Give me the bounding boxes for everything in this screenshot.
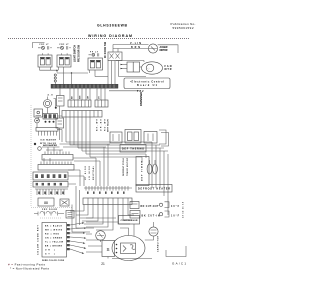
svg-text:BK: BK: [72, 96, 74, 99]
svg-text:40°F: 40°F: [171, 205, 180, 208]
wire: compressor top feed: [120, 224, 134, 237]
wire: left feeder bundle down: [72, 186, 80, 232]
label: water valve amps: [48, 94, 54, 97]
header model number label: [97, 24, 128, 28]
limit switch with cross: [60, 199, 69, 206]
connector chain to light bus: [54, 74, 56, 85]
ice maker heater bar: [43, 114, 58, 123]
wire: switch block feeders: [113, 45, 118, 53]
connector P6 comb: [38, 162, 74, 171]
label: door switch column right: [104, 41, 107, 58]
solenoid valve SV1: [34, 109, 43, 117]
mullion heater box: [66, 211, 74, 219]
wire: ground stub: [101, 240, 109, 258]
svg-text:WIRE COLOR CODE: WIRE COLOR CODE: [42, 260, 65, 262]
connector block row: socket B: [125, 130, 141, 144]
connector P5 comb: [42, 152, 73, 161]
wire: fan lead: [140, 66, 142, 68]
svg-text:OR =: OR =: [45, 250, 56, 252]
svg-text:BK = BLACK: BK = BLACK: [45, 225, 63, 228]
connector block row: socket C: [144, 132, 157, 144]
light bus bar (hatched): [51, 84, 118, 88]
connector block row: socket A: [110, 132, 122, 143]
svg-text:DEF THERMO: DEF THERMO: [122, 148, 144, 151]
wire: motor top to right drop: [158, 45, 178, 53]
svg-text:BK-WH: BK-WH: [97, 118, 99, 131]
wire: drops from light bus to connector J1: [70, 88, 105, 100]
svg-text:MTR: MTR: [165, 68, 172, 71]
svg-text:AIR DAMPER: AIR DAMPER: [43, 144, 57, 147]
wire: bottom-right corner bracket: [166, 246, 186, 257]
label: wire color columns right of TB1: [97, 118, 107, 131]
freezer lamp assembly 1: [38, 53, 52, 67]
svg-text:Board U1: Board U1: [137, 84, 158, 87]
compressor motor: [112, 236, 145, 261]
wire: mid vertical bundle: [80, 144, 108, 186]
svg-text:S: S: [106, 247, 109, 252]
wire: mid mesh horizontals: [42, 144, 110, 184]
svg-text:RD-WH: RD-WH: [105, 118, 107, 131]
svg-text:LIGHT SWITCH: LIGHT SWITCH: [74, 45, 77, 62]
ice maker connector comb: [36, 128, 58, 136]
switch block with arc contacts: [108, 52, 122, 61]
label: light switch column (rotated): [74, 44, 81, 62]
label: freezer door row: [42, 209, 58, 211]
svg-text:4.8: 4.8: [48, 94, 54, 97]
svg-text:DISPENSER: DISPENSER: [140, 92, 143, 106]
wire: lamp 1 legs to common: [40, 67, 51, 70]
electronic control board U1: [124, 78, 170, 89]
defrost heater label box: [136, 185, 172, 193]
svg-text:GY: GY: [99, 95, 101, 99]
ice dispenser solenoid box: [121, 62, 140, 72]
footer page number 21: [101, 262, 105, 266]
relay module K1: [57, 88, 65, 106]
label: right margin pin numbers: [183, 201, 185, 218]
wire: compressor feed runs: [70, 205, 152, 259]
svg-text:RD = RED: RD = RED: [45, 234, 60, 236]
label: timer wire colors (rotated): [123, 157, 129, 176]
label: dispenser harness (rotated): [140, 92, 143, 106]
damper motor M4: [38, 144, 58, 150]
svg-text:DEF TIMER: DEF TIMER: [142, 161, 144, 181]
wire: nested bracket right of socket row: [159, 130, 169, 146]
wire: key arrows to diagram: [70, 222, 86, 254]
freezer lamp assembly 2: [57, 53, 71, 67]
connector J2 header comb: [84, 186, 132, 194]
terminal strip TB1: [62, 111, 102, 118]
start relay K3: [102, 241, 115, 257]
color key terminal pads: [67, 224, 70, 250]
dotted separator rule: [8, 38, 190, 40]
svg-text:WTR VALVE: WTR VALVE: [107, 118, 110, 132]
wire: capacitor leads: [145, 222, 154, 240]
wire: top-left corner bracket: [33, 43, 45, 49]
svg-text:HI SIDE: HI SIDE: [85, 165, 87, 180]
door switch chain row: [34, 212, 64, 219]
thermostat bulb 1: [147, 160, 152, 174]
MAIN SCHEMATIC: [31, 41, 186, 262]
overload protector OL1: [96, 231, 106, 241]
center mesh labels: [85, 165, 95, 180]
fresh food lamp assembly: [88, 51, 103, 70]
thermostat bulb 2: [153, 160, 158, 174]
svg-text:FRZ DOOR SW: FRZ DOOR SW: [78, 44, 81, 62]
wire: lamp common run: [40, 70, 58, 73]
svg-text:GY =: GY =: [45, 254, 56, 256]
svg-text:RD CUT-OUT: RD CUT-OUT: [141, 206, 160, 208]
svg-text:COLOR CODE KEY: COLOR CODE KEY: [38, 224, 40, 255]
svg-text:10°F: 10°F: [171, 216, 180, 218]
svg-text:FRZ LT: FRZ LT: [60, 44, 70, 46]
thermal cutout row 2: [130, 211, 180, 219]
wire: cabinet boundary (dashed): [31, 105, 72, 208]
wire: top run V-LIN: [113, 42, 149, 45]
lamp symbol row above freezer lamp 1: [38, 44, 52, 50]
wire: center vertical bundle from switches: [108, 61, 119, 85]
svg-text:FRZ LT: FRZ LT: [40, 44, 50, 46]
svg-text:* = Non-Illustrated Parts: * = Non-Illustrated Parts: [10, 266, 50, 270]
label: key caption below: [42, 260, 65, 262]
svg-text:OR: OR: [88, 95, 90, 99]
svg-text:FF LT: FF LT: [90, 51, 99, 53]
ice maker motor M3: [35, 118, 40, 123]
svg-text:ICE MAKER: ICE MAKER: [40, 139, 57, 142]
svg-text:GN = GREEN: GN = GREEN: [45, 238, 63, 240]
svg-text:LO SIDE: LO SIDE: [89, 165, 91, 180]
compressor terminal box: [119, 216, 140, 225]
auger motor M1: [148, 44, 167, 53]
svg-text:WIRING DIAGRAM: WIRING DIAGRAM: [88, 34, 132, 38]
footer doc code GA/C1: [172, 262, 186, 266]
svg-text:GLHS36EEWB: GLHS36EEWB: [97, 24, 128, 28]
label: capacitor (rotated): [157, 235, 160, 252]
legend: fast-moving parts: [8, 263, 46, 267]
thermal cutout row 1: [130, 202, 180, 209]
wire: left cluster links: [37, 108, 62, 143]
svg-text:MOTOR: MOTOR: [160, 49, 168, 52]
connector P7 with filled pins: [33, 172, 68, 180]
svg-text:WH = WHITE: WH = WHITE: [45, 230, 63, 232]
wire: right bus verticals: [142, 142, 168, 215]
svg-text:FRZ DOOR: FRZ DOOR: [42, 209, 58, 211]
defrost timer T1: [136, 157, 149, 186]
door heater resistor box: [38, 198, 54, 206]
connector J1B: [95, 100, 108, 107]
wire: run to fan below: [95, 61, 146, 77]
connector J3 strip: [83, 198, 132, 205]
svg-text:YL = YELLOW: YL = YELLOW: [45, 242, 63, 244]
header publication number label: [171, 22, 196, 30]
wire: common to fresh-food lamp: [57, 72, 88, 84]
svg-text:NEUTRAL: NEUTRAL: [92, 165, 95, 180]
svg-text:88: 88: [44, 201, 48, 205]
svg-text:BRN: BRN: [131, 46, 140, 49]
color code key box: [42, 223, 67, 258]
run capacitor C1: [149, 227, 158, 236]
wire: control board output with arrow: [109, 90, 144, 93]
defrost thermostat label box: [120, 145, 146, 153]
connector P8 with filled pins: [33, 182, 68, 188]
svg-text:V-LIN: V-LIN: [130, 42, 141, 45]
svg-text:OR-BK: OR-BK: [101, 118, 103, 131]
svg-text:DEFROST CYCLE: DEFROST CYCLE: [123, 157, 125, 176]
label: ice maker rows: [34, 139, 57, 146]
wire: fan-out from TB1 bundle to right bus: [66, 142, 168, 157]
wire: comb risers: [44, 147, 60, 162]
svg-text:GA/C1: GA/C1: [172, 262, 186, 266]
svg-text:BK CUT-IN: BK CUT-IN: [142, 216, 160, 218]
svg-text:5995061592: 5995061592: [173, 26, 194, 30]
svg-text:WH: WH: [80, 95, 82, 99]
svg-text:TIMER MOTOR: TIMER MOTOR: [127, 157, 129, 176]
connector P9 comb with pin pairs: [35, 189, 68, 195]
svg-text:CAPACITOR: CAPACITOR: [157, 235, 160, 252]
wire: fresh food lamp drop: [90, 70, 96, 77]
svg-text:◌: ◌: [148, 66, 150, 70]
water valve motor M2: [44, 97, 57, 109]
label: water inlet (rotated): [107, 118, 110, 132]
evaporator fan motor: [142, 62, 172, 74]
svg-text:COMPRESSOR: COMPRESSOR: [121, 220, 138, 222]
svg-text:FF DOOR SW: FF DOOR SW: [104, 41, 107, 58]
header WIRING DIAGRAM title: [88, 34, 132, 38]
label: wire colors above J1: [72, 95, 101, 99]
legend: non-illustrated parts: [10, 266, 50, 270]
lamp symbol row above freezer lamp 2: [57, 44, 71, 50]
wire: TB1 drops: [66, 117, 90, 157]
relay module K2: [56, 106, 64, 140]
label: color code key title (rotated): [38, 224, 40, 255]
connector J1A: [68, 100, 91, 107]
wire: lamp 2 legs: [59, 67, 64, 73]
svg-text:21: 21: [101, 262, 105, 266]
svg-text:BR = BROWN: BR = BROWN: [45, 246, 63, 248]
wire: top run BRN to motor: [113, 46, 149, 49]
wire: J3 drops fan out: [76, 205, 134, 231]
svg-text:DEFROST HEATER: DEFROST HEATER: [138, 188, 170, 191]
svg-text:13 12 11 10: 13 12 11 10: [183, 201, 185, 218]
